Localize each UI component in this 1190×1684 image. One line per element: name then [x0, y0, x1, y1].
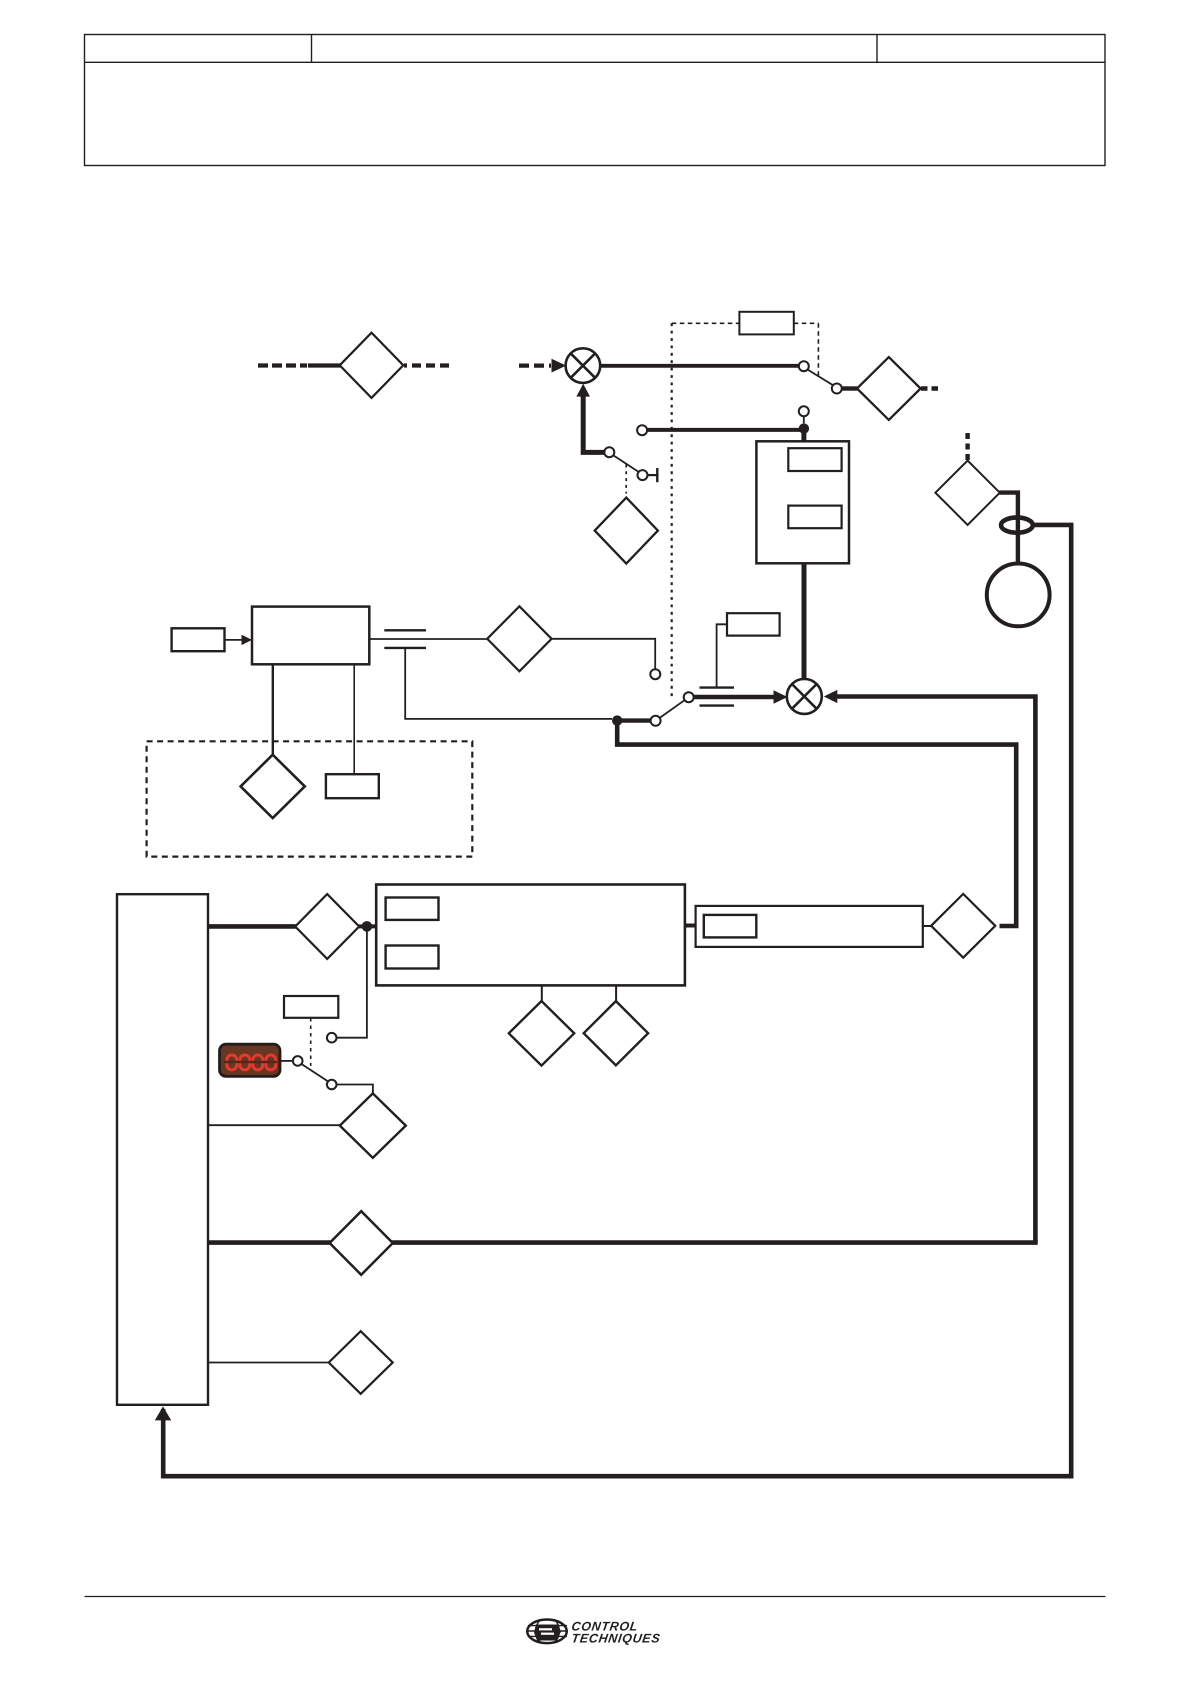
svg-text:TECHNIQUES: TECHNIQUES: [571, 1631, 662, 1645]
